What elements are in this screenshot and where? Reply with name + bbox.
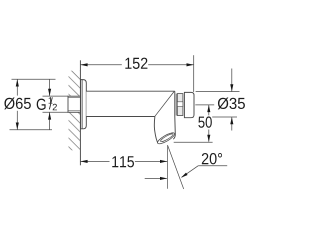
dim G1/2 extension bottom (43, 111, 69, 113)
dim 50 line and arrows (207, 105, 210, 142)
spout boot fill (154, 116, 175, 145)
dim 115 line (80, 153, 167, 167)
push button (184, 92, 194, 117)
dim O65 extension bottom (10, 129, 53, 131)
dim O35 extension bottom (212, 116, 237, 118)
G 1/2 thread square in wall (68, 96, 80, 112)
boot right edge / body end (173, 91, 175, 139)
20 deg text (202, 153, 222, 164)
wall hatching (69, 71, 81, 151)
outlet outer rim (156, 131, 176, 146)
dim O35 text (218, 97, 245, 109)
dim 152 text (125, 58, 147, 69)
dim G1/2 line and arrows (48, 79, 51, 130)
dim G1/2 extension top (43, 95, 69, 97)
boot parting line (155, 91, 174, 116)
water stream vertical line (167, 145, 169, 189)
dim O65 extension top (12, 78, 56, 80)
dim O65 text (4, 97, 31, 109)
dim 152 right extension line (193, 55, 195, 92)
outlet inner rim (160, 133, 174, 143)
flange base lip line (81, 80, 83, 129)
cap ring band (177, 94, 183, 116)
dim O35 line and arrows (230, 69, 233, 131)
cap washer ring (175, 94, 177, 116)
flange (escutcheon) (81, 80, 87, 129)
dim O65 line and arrows (16, 79, 19, 129)
dim 115 text (112, 156, 134, 167)
dim 50 extension axis (195, 104, 214, 106)
dim 152 line (80, 56, 193, 70)
boot left edge (154, 116, 158, 143)
wall surface line (79, 60, 81, 165)
20 deg leader (181, 166, 227, 178)
body tube (86, 91, 175, 116)
G 1/2 label (37, 97, 57, 110)
dim 50 extension outlet (174, 141, 213, 143)
dim 50 text (198, 116, 211, 127)
angle dim arrow at vertical (145, 177, 168, 180)
dim O35 extension top (196, 91, 240, 93)
water stream 20 deg line (168, 145, 184, 189)
